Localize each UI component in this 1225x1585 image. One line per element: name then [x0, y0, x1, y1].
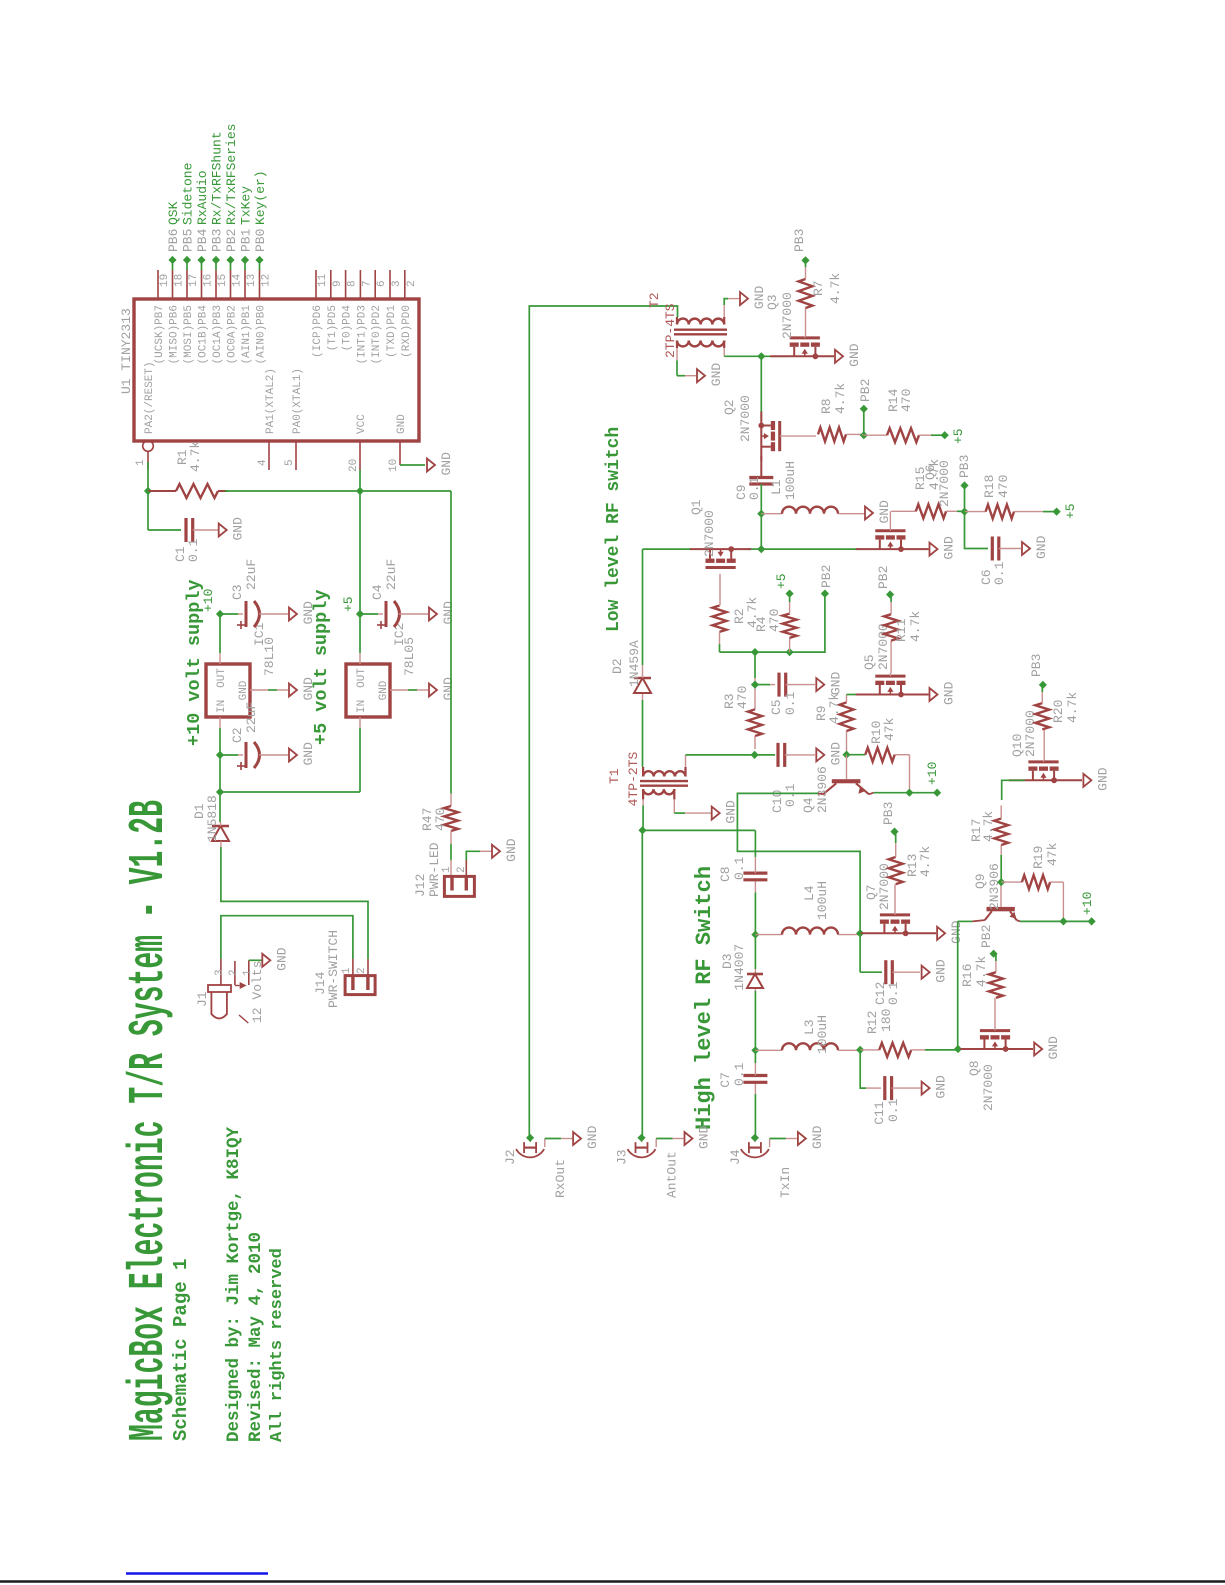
svg-text:GND: GND: [396, 414, 408, 434]
resistor R4 470: [789, 638, 791, 652]
svg-text:Q5: Q5: [862, 654, 877, 670]
wire AntOut dot to C8: [643, 829, 756, 831]
svg-text:180: 180: [879, 1009, 894, 1032]
wire Q4 base: [846, 755, 848, 780]
capacitor C6 0.1: [991, 537, 994, 561]
wire 12V rail vertical: [220, 791, 360, 793]
svg-text:C11: C11: [872, 1101, 887, 1125]
svg-text:Q4: Q4: [801, 797, 816, 813]
svg-text:4.7k: 4.7k: [833, 383, 848, 414]
svg-text:TxKey: TxKey: [239, 186, 254, 225]
resistor R7 4.7k: [805, 308, 807, 337]
supply +5 at R4: [786, 590, 794, 598]
svg-text:R7: R7: [811, 280, 826, 296]
pin J12 pin1: [450, 876, 453, 890]
svg-text:0.1: 0.1: [732, 1062, 747, 1086]
svg-text:AntOut: AntOut: [665, 1151, 680, 1198]
svg-text:PWR-SWITCH: PWR-SWITCH: [326, 930, 341, 1008]
svg-text:16: 16: [203, 274, 215, 287]
svg-text:(T1)PD5: (T1)PD5: [327, 305, 339, 351]
svg-text:4.7k: 4.7k: [908, 611, 923, 642]
capacitor C12 0.1: [884, 960, 887, 984]
wire R47 to J12: [450, 844, 452, 860]
svg-text:4.7k: 4.7k: [974, 956, 989, 987]
svg-text:+5: +5: [1063, 503, 1078, 519]
wire AntOut rail: [641, 830, 643, 1138]
svg-text:GND: GND: [231, 517, 246, 541]
wire Q7 source to ground: [907, 932, 936, 934]
inductor L1 100uH: [761, 513, 782, 515]
svg-text:(MISO)PB6: (MISO)PB6: [169, 305, 181, 364]
svg-text:Revised: May 4, 2010: Revised: May 4, 2010: [246, 1232, 266, 1442]
ground Q5: [930, 688, 938, 701]
svg-text:100uH: 100uH: [815, 1015, 830, 1054]
svg-text:14: 14: [232, 273, 244, 287]
wire Q2 source to C9: [760, 456, 762, 478]
net PB3 at R20: [1039, 681, 1047, 689]
page bottom rule black: [0, 1580, 1225, 1583]
ground C2: [289, 749, 297, 762]
junction reset/R1/C1: [144, 487, 152, 495]
svg-text:R18: R18: [982, 475, 997, 498]
wire VCC down to R47 branch: [360, 490, 451, 492]
supply +5 at R18: [1053, 508, 1061, 516]
junction J4 tip: [751, 1134, 759, 1142]
svg-text:0.1: 0.1: [783, 691, 798, 715]
ground J3: [685, 1132, 693, 1145]
transformer T1 4TP-2TS: [643, 771, 685, 776]
svg-text:2N7000: 2N7000: [981, 1064, 996, 1111]
svg-text:R15: R15: [913, 467, 928, 490]
pin J1 pin2 switch: [234, 961, 236, 985]
connector J12 PWR-LED box: [444, 876, 474, 896]
connector J14 PWR-SWITCH box: [345, 976, 375, 995]
wire pin1 reset net: [147, 462, 149, 491]
svg-text:GND: GND: [1034, 535, 1049, 559]
svg-text:T1: T1: [607, 768, 622, 784]
junction R3 on rail: [751, 648, 759, 656]
wire IC2 OUT to +5: [359, 614, 361, 653]
resistor R3 470: [754, 652, 756, 678]
svg-text:2N7000: 2N7000: [876, 623, 891, 670]
svg-text:PB1: PB1: [239, 228, 254, 252]
svg-text:+5 volt supply: +5 volt supply: [311, 590, 332, 745]
wire L4 dot to C8: [754, 892, 756, 934]
ic U1 pin 20 VCC stub: [359, 441, 361, 470]
capacitor C2 22uF polarized: [245, 742, 248, 768]
transistor Q8 2N7000: [980, 1035, 989, 1039]
transformer T2 2TP-4TS: [677, 319, 724, 325]
resistor R14 470: [864, 434, 887, 436]
ground T2 secondary: [740, 292, 748, 305]
svg-text:(T0)PD4: (T0)PD4: [342, 305, 354, 352]
resistor R11 4.7k: [884, 614, 898, 640]
junction Q4 base node: [842, 751, 850, 759]
svg-text:2: 2: [456, 866, 468, 873]
ic IC2 78L05 box: [346, 664, 390, 717]
wire R1 to VCC line: [225, 490, 360, 492]
capacitor C1 0.1: [184, 518, 187, 542]
svg-text:PB2: PB2: [224, 229, 239, 252]
svg-text:11: 11: [317, 273, 329, 287]
svg-text:0.1: 0.1: [992, 561, 1007, 585]
svg-text:(MOSI)PB5: (MOSI)PB5: [183, 305, 195, 364]
svg-text:78L10: 78L10: [262, 637, 277, 676]
svg-text:GND: GND: [238, 680, 250, 700]
wire T1 winding B bottom to ground: [673, 799, 675, 813]
wire R11 to PB2: [890, 595, 892, 603]
pin J12 pin2: [465, 876, 468, 890]
svg-text:470: 470: [899, 389, 914, 412]
svg-text:OUT: OUT: [216, 668, 228, 688]
svg-text:QSK: QSK: [166, 201, 181, 225]
wire C6 branch: [965, 512, 989, 549]
ground Q10: [1083, 774, 1091, 787]
wire 12V rail to IC2 IN: [359, 728, 361, 792]
svg-text:13: 13: [246, 274, 258, 287]
pin IC2 GND lead: [390, 689, 408, 691]
resistor R18 470: [965, 511, 986, 513]
svg-text:4.7k: 4.7k: [827, 693, 842, 724]
wire +10 to C3: [220, 613, 238, 615]
svg-text:GND: GND: [441, 677, 456, 701]
junction L3 top: [751, 1046, 759, 1054]
svg-text:VCC: VCC: [356, 414, 368, 434]
wire T1 winding B top to AntOut dot: [642, 799, 644, 805]
connector J2 jack: [516, 1149, 544, 1157]
wire J12 pin2 to ground: [466, 851, 480, 860]
capacitor C9 0.1: [749, 482, 773, 485]
junction R17/R19/Q9: [997, 878, 1005, 886]
svg-text:1: 1: [441, 866, 453, 873]
svg-text:(TXD)PD1: (TXD)PD1: [386, 305, 398, 358]
svg-text:4TP-2TS: 4TP-2TS: [626, 751, 641, 806]
svg-text:(AIN1)PB1: (AIN1)PB1: [241, 305, 253, 365]
wire VCC line pin20 to +5: [359, 470, 361, 614]
connector J3 jack: [628, 1149, 656, 1157]
svg-text:+10: +10: [1080, 892, 1095, 915]
wire Q5 source to ground: [902, 694, 928, 696]
wire Q9 base to R17/R19 junction: [1000, 882, 1002, 907]
wire Q1/Q6 drain line: [643, 548, 691, 550]
wire R4 to +5: [789, 594, 791, 602]
svg-text:PB6: PB6: [166, 229, 181, 252]
pin IC1 OUT: [219, 653, 221, 664]
pin J1 pin1 sleeve: [248, 960, 250, 985]
svg-text:Schematic Page 1: Schematic Page 1: [170, 1259, 192, 1441]
wire Q10 drain to R17: [1002, 780, 1025, 800]
svg-text:(OC1B)PB4: (OC1B)PB4: [198, 305, 210, 365]
resistor R2 4.7k: [713, 606, 727, 632]
svg-text:8: 8: [347, 280, 359, 287]
transistor Q7 2N7000: [880, 920, 889, 924]
transistor Q6 2N7000: [875, 535, 884, 539]
svg-text:470: 470: [433, 808, 448, 831]
supply +5 node: [356, 610, 364, 618]
wire T2 node to Q2: [760, 356, 762, 420]
wire J3 tip: [641, 1138, 643, 1142]
wire T2 primary top to ground: [676, 348, 678, 360]
svg-text:GND: GND: [724, 800, 739, 824]
wire Q9 emitter to +10: [1017, 920, 1020, 921]
resistor R47 470: [450, 794, 452, 806]
svg-text:4: 4: [257, 459, 269, 466]
diode D2 1N459A: [642, 693, 644, 700]
junction R8/R14/PB2: [860, 431, 868, 439]
capacitor C7 0.1: [754, 1082, 756, 1094]
svg-text:+5: +5: [341, 596, 356, 612]
junction R15/R18/PB3/C6: [960, 508, 968, 516]
svg-text:47k: 47k: [1045, 842, 1060, 866]
supply +10 at Q9: [1088, 917, 1096, 925]
wire Q10 gate to R20: [1043, 729, 1045, 760]
wire Q6 source to ground: [902, 548, 928, 550]
svg-text:22uF: 22uF: [244, 702, 259, 733]
svg-text:Key(er): Key(er): [253, 170, 268, 225]
pin IC2 IN: [359, 717, 361, 728]
wire C2 branch: [220, 754, 238, 756]
pin IC1 IN: [219, 717, 221, 728]
svg-text:J4: J4: [728, 1149, 743, 1165]
diode D1 1N5818: [212, 826, 229, 841]
svg-text:17: 17: [188, 274, 200, 287]
svg-text:GND: GND: [441, 601, 456, 625]
svg-text:U1 TINY2313: U1 TINY2313: [119, 308, 134, 394]
wire C1 branch: [147, 491, 149, 530]
svg-text:Rx/TxRFSeries: Rx/TxRFSeries: [224, 124, 239, 225]
svg-text:GND: GND: [949, 920, 964, 944]
connector J4 jack: [741, 1149, 769, 1157]
svg-text:4.7k: 4.7k: [918, 846, 933, 877]
junction C5 tap: [751, 681, 759, 689]
connector J1 power jack: [211, 992, 227, 1019]
svg-text:PB3: PB3: [957, 455, 972, 478]
wire Q3 source to ground: [817, 355, 834, 357]
svg-text:PB3: PB3: [881, 802, 896, 825]
wire R16 to PB2: [995, 954, 997, 961]
wire J2 shell to ground: [544, 1139, 546, 1148]
svg-text:Rx/TxRFShunt: Rx/TxRFShunt: [210, 131, 225, 225]
pin IC2 OUT: [359, 653, 361, 664]
wire VCC to R47: [450, 491, 452, 794]
ground J1: [262, 954, 270, 967]
wire +10 line at Q4: [874, 792, 938, 794]
svg-text:4.7k: 4.7k: [1065, 692, 1080, 723]
ground IC1: [289, 684, 297, 697]
svg-text:GND: GND: [810, 1125, 825, 1149]
svg-text:(INT1)PD3: (INT1)PD3: [356, 305, 368, 364]
svg-text:GND: GND: [847, 343, 862, 367]
resistor R10 47k: [847, 754, 866, 756]
pin J14 pin2: [366, 976, 369, 990]
svg-text:0.1: 0.1: [186, 538, 201, 562]
capacitor C4 22uF polarized: [385, 601, 388, 627]
transistor Q4 2N3906: [832, 779, 861, 783]
junction L4 top: [751, 931, 759, 939]
svg-text:2N3906: 2N3906: [815, 766, 830, 813]
svg-text:(OC1A)PB3: (OC1A)PB3: [212, 305, 224, 364]
wire Q4 emitter to +10: [869, 793, 874, 795]
svg-text:22uF: 22uF: [384, 559, 399, 590]
wire C11 branch: [860, 1050, 866, 1088]
hyperlink underline blue: [126, 1572, 268, 1574]
wire J4 tip: [754, 1138, 756, 1142]
svg-text:0.1: 0.1: [886, 1098, 901, 1122]
wire L3 to D3: [754, 991, 756, 1050]
junction R4 on rail: [786, 648, 794, 656]
wire D1 anode to J14 pin2: [221, 847, 368, 959]
junction J2 tip: [526, 1134, 534, 1142]
svg-text:+10: +10: [201, 589, 216, 612]
ground C3: [289, 608, 297, 621]
capacitor C10 0.1: [755, 754, 775, 756]
svg-text:1N459A: 1N459A: [627, 640, 642, 687]
svg-text:GND: GND: [697, 1125, 712, 1149]
wire R18 to +5: [1043, 511, 1057, 513]
net PB3 at R7: [801, 256, 809, 264]
svg-text:9: 9: [332, 280, 344, 287]
svg-text:+10: +10: [925, 762, 940, 785]
svg-text:3: 3: [214, 969, 226, 976]
svg-text:PB3: PB3: [210, 229, 225, 252]
svg-text:2: 2: [228, 969, 240, 976]
svg-text:D2: D2: [610, 658, 625, 674]
svg-text:Q9: Q9: [973, 873, 988, 889]
ic U1 TINY2313 box: [134, 299, 419, 441]
svg-text:78L05: 78L05: [402, 637, 417, 676]
wire +5 to C4: [360, 613, 378, 615]
svg-text:GND: GND: [439, 452, 454, 476]
transistor Q2 2N7000: [771, 442, 775, 451]
svg-text:4.7k: 4.7k: [188, 441, 203, 472]
svg-text:2N7000: 2N7000: [738, 395, 753, 442]
resistor R13 4.7k: [889, 857, 903, 884]
ic U1 pin 10 GND stub: [399, 441, 401, 465]
wire C7 to L3 junction: [754, 1050, 756, 1063]
wire R10 to +10 line: [909, 755, 911, 793]
resistor R9 4.7k: [846, 731, 848, 755]
svg-text:J2: J2: [503, 1149, 518, 1165]
wire R9 to Q5 drain: [847, 694, 863, 696]
transistor Q10 2N7000: [1028, 767, 1037, 771]
wire J1 pin3 to J14 pin1: [221, 916, 353, 959]
svg-text:19: 19: [159, 274, 171, 287]
ground C6: [1022, 542, 1030, 555]
svg-text:R16: R16: [960, 964, 975, 987]
svg-text:TxIn: TxIn: [778, 1167, 793, 1198]
junction T1/AntOut/C8: [638, 826, 646, 834]
svg-text:GND: GND: [828, 671, 843, 695]
svg-text:IN: IN: [216, 700, 228, 713]
svg-text:5: 5: [284, 459, 296, 466]
svg-text:PB4: PB4: [195, 228, 210, 252]
svg-text:0.1: 0.1: [732, 856, 747, 880]
svg-text:GND: GND: [378, 680, 390, 700]
wire C12 branch: [859, 933, 861, 972]
svg-text:PA0(XTAL1): PA0(XTAL1): [292, 368, 304, 434]
svg-text:GND: GND: [709, 363, 724, 387]
svg-text:PWR-LED: PWR-LED: [427, 842, 442, 897]
svg-text:10: 10: [388, 459, 400, 472]
ground C1: [219, 524, 227, 537]
junction R10/+10: [905, 789, 913, 797]
svg-text:15: 15: [217, 274, 229, 287]
wire IC1 OUT to +10: [219, 614, 221, 653]
ic U1 pins 11-2 stubs: [315, 270, 317, 299]
junction R1/VCC: [356, 487, 364, 495]
wire R14 to +5: [931, 434, 945, 436]
wire Q9 collector line: [957, 921, 959, 1049]
ground T1 primary: [712, 807, 720, 820]
wire C2 junction to IC1 IN: [219, 728, 221, 755]
svg-text:GND: GND: [828, 742, 843, 766]
resistor R20 4.7k: [1035, 703, 1049, 729]
svg-text:0.1: 0.1: [783, 783, 798, 807]
wire C5 branch: [755, 684, 770, 686]
transistor Q9 2N3906: [987, 907, 1015, 911]
ic U1 pins 19-12 stubs: [157, 270, 159, 299]
wire PB2 rail: [720, 594, 825, 653]
svg-text:OUT: OUT: [356, 668, 368, 688]
svg-text:470: 470: [996, 475, 1011, 498]
svg-text:(ICP)PD6: (ICP)PD6: [312, 305, 324, 358]
resistor R12 180: [860, 1049, 879, 1051]
ground IC2: [429, 684, 437, 697]
svg-text:0.1: 0.1: [886, 981, 901, 1005]
resistor R17 4.7k: [1000, 855, 1002, 882]
wire L1 junction to Q1 drain line: [760, 514, 762, 549]
wire pin10 to ground: [400, 464, 425, 466]
ground Q6: [930, 543, 938, 556]
inductor L3 100uH: [755, 1049, 782, 1051]
svg-text:J3: J3: [615, 1149, 630, 1165]
ground C11: [922, 1082, 930, 1095]
svg-text:C3: C3: [230, 584, 245, 600]
ground J2: [573, 1132, 581, 1145]
wire R19 to +10 line: [1062, 882, 1064, 921]
resistor R8 4.7k: [818, 427, 846, 441]
svg-text:R19: R19: [1031, 846, 1046, 869]
transistor Q1 2N7000: [706, 559, 715, 563]
svg-text:Low level RF switch: Low level RF switch: [604, 427, 624, 632]
svg-text:22uF: 22uF: [244, 559, 259, 590]
svg-text:4.7k: 4.7k: [828, 273, 843, 304]
svg-text:2: 2: [356, 967, 368, 974]
wire Q6 gate to R15: [891, 510, 916, 512]
ground Q8: [1034, 1043, 1042, 1056]
resistor R19 47k: [1001, 881, 1022, 883]
wire RxOut rail: [529, 306, 677, 1138]
svg-text:+5: +5: [774, 573, 789, 589]
svg-text:(AIN0)PB0: (AIN0)PB0: [256, 305, 268, 364]
svg-text:Designed by: Jim Kortge, K8IQY: Designed by: Jim Kortge, K8IQY: [224, 1126, 244, 1442]
svg-text:47k: 47k: [882, 717, 897, 741]
svg-text:PB5: PB5: [181, 229, 196, 252]
svg-text:PB3: PB3: [1029, 654, 1044, 677]
ground L1: [865, 507, 873, 520]
svg-text:1N4007: 1N4007: [732, 944, 747, 991]
svg-text:20: 20: [348, 459, 360, 472]
svg-text:470: 470: [735, 686, 750, 709]
transistor Q3 2N7000: [790, 343, 799, 347]
net PB2 at R11: [886, 590, 894, 598]
svg-text:PA2(/RESET): PA2(/RESET): [144, 361, 156, 434]
junction R19/+10: [1059, 917, 1067, 925]
svg-text:2N3906: 2N3906: [987, 863, 1002, 910]
resistor R16 4.7k: [989, 972, 1003, 998]
wire J3 shell to ground: [655, 1139, 657, 1148]
svg-text:Q2: Q2: [722, 399, 737, 415]
